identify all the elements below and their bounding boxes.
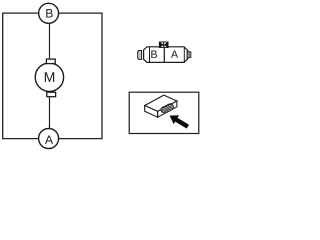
inset connector housing top face [145, 95, 177, 111]
wire bottom: left and right rails to node A [3, 138, 102, 140]
inset box frame [129, 92, 199, 133]
connector J1 cavity divider [163, 47, 165, 63]
motor label M [45, 72, 54, 82]
connector J1 body [144, 47, 188, 63]
connector J1 right tip taper [187, 50, 189, 59]
wire node B to motor [49, 13, 51, 77]
connector J1 left wire boot [138, 51, 142, 60]
node A terminal circle [39, 129, 59, 149]
node B terminal circle [39, 3, 59, 23]
node B label [46, 9, 52, 17]
wire right rail [101, 12, 103, 139]
inset connector plug flange [160, 103, 174, 114]
inset connector plug ribs [163, 105, 172, 109]
motor brush terminal bottom [47, 92, 56, 97]
motor brush terminal top [46, 59, 55, 64]
connector pin label B [151, 51, 157, 58]
wire left rail [2, 12, 4, 139]
connector pin label A [171, 50, 178, 57]
wire top: node B to left and right rails [3, 12, 102, 14]
inset connector housing left face [145, 106, 158, 118]
connector J1 inner wall right [183, 47, 185, 63]
connector J1 inner wall left [149, 47, 151, 63]
inset connector housing right face [158, 101, 177, 117]
node A label [45, 136, 53, 144]
insertion direction arrow [170, 115, 189, 128]
connector J1 right tip [189, 52, 191, 58]
motor body [35, 63, 63, 91]
wire motor to node A [49, 77, 51, 139]
inset connector plug face [161, 104, 174, 114]
connector J1 locking tab [159, 42, 169, 49]
